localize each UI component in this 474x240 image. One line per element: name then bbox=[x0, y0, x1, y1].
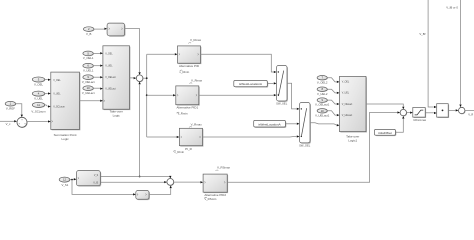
subsystem Take-over Logic1 bbox=[340, 76, 367, 142]
svg-text:initialOffset: initialOffset bbox=[378, 131, 392, 135]
switch SW_OEL bbox=[299, 103, 311, 148]
svg-text:10: 10 bbox=[87, 86, 90, 90]
svg-text:V_c: V_c bbox=[6, 122, 11, 126]
wire V_c input to sum S1 bbox=[0, 120, 17, 126]
wire V_OEL bbox=[45, 79, 51, 81]
wire V_S1 branch to unit delay bbox=[72, 180, 136, 196]
svg-text:V_UEL2: V_UEL2 bbox=[317, 92, 328, 96]
wire V_S1 to measurement block bbox=[70, 178, 77, 180]
inport V_OELact1 (9) bbox=[315, 98, 330, 107]
constant isWestLocationA bbox=[234, 81, 268, 88]
wire V_SCLsum bbox=[45, 105, 51, 108]
annotation V_Rmax (PI_R) bbox=[189, 122, 202, 127]
wire measurement V_IS to sum S5 left bbox=[100, 181, 167, 183]
subsystem Take-over Logic bbox=[103, 46, 131, 118]
svg-text:v_RSmin: v_RSmin bbox=[205, 197, 217, 201]
svg-text:V_UEL: V_UEL bbox=[53, 94, 61, 96]
wire isWestLocationB to SW_OEL port2 bbox=[285, 123, 299, 125]
wire V_IB from top to sum S4 top bbox=[446, 0, 461, 107]
svg-text:V_Rmax: V_Rmax bbox=[190, 38, 202, 42]
wire V_B bbox=[94, 28, 108, 30]
annotation v_Rmin (PID1) bbox=[177, 112, 188, 116]
annotation v_Rmin (PI_R) bbox=[173, 150, 184, 154]
annotation v_RSmin (PID2) bbox=[204, 197, 216, 201]
svg-text:V_OEL: V_OEL bbox=[34, 82, 43, 86]
inport V_OELact (9) bbox=[82, 75, 95, 84]
svg-text:V_SCLsum: V_SCLsum bbox=[31, 109, 46, 113]
svg-text:V_OEL2: V_OEL2 bbox=[317, 80, 328, 84]
wire feedback riser to sum S2 bottom bbox=[138, 82, 140, 178]
svg-text:V_OEL: V_OEL bbox=[53, 80, 61, 82]
inport V_OEL2 (7) bbox=[317, 76, 328, 85]
svg-text:V_S1: V_S1 bbox=[61, 183, 68, 187]
wire V_UEL2 bbox=[327, 89, 339, 94]
svg-text:v_Rmin: v_Rmin bbox=[179, 70, 189, 74]
svg-text:V_OELact: V_OELact bbox=[82, 80, 95, 84]
inport V_S1 (12) bbox=[59, 177, 70, 187]
annotation v_Rmin (PID) bbox=[179, 70, 189, 74]
block Alternative PID2 bbox=[203, 174, 228, 197]
sum S4 bbox=[459, 107, 466, 114]
svg-text:V_UEL1: V_UEL1 bbox=[83, 69, 94, 73]
wire SW_OEL output to Take-over Logic1 bbox=[310, 123, 340, 127]
block V_B filter bbox=[107, 23, 125, 37]
inport V_UELact (10) bbox=[82, 86, 95, 95]
svg-text:V_UELact: V_UELact bbox=[82, 91, 95, 95]
wire measurement V_S to sum S5 top and feedback bbox=[100, 176, 171, 179]
svg-text:isWestLocationA: isWestLocationA bbox=[239, 82, 263, 86]
svg-text:V_UEL: V_UEL bbox=[105, 66, 113, 68]
product block bbox=[437, 104, 449, 118]
svg-text:SW_UEL: SW_UEL bbox=[276, 102, 288, 106]
wire product to sum S4 bbox=[448, 109, 458, 111]
wire Alternative PID2 to sum S3 left bbox=[227, 111, 400, 182]
svg-text:Alternative PID1: Alternative PID1 bbox=[176, 106, 198, 110]
svg-text:V_OEL: V_OEL bbox=[342, 82, 350, 84]
subsystem measurement bbox=[77, 171, 102, 187]
svg-text:V_Rmax: V_Rmax bbox=[191, 122, 203, 126]
svg-text:SW_OEL: SW_OEL bbox=[299, 144, 311, 148]
svg-text:V_Rmax: V_Rmax bbox=[191, 78, 203, 82]
svg-text:URminmax: URminmax bbox=[413, 118, 427, 122]
wire V_UELact bbox=[93, 87, 103, 89]
svg-text:Logic: Logic bbox=[113, 114, 121, 118]
wire V_UEL1 bbox=[93, 64, 103, 66]
wire sum S5 to Alternative PID2 bbox=[174, 181, 203, 183]
subsystem Summation Point Logic bbox=[51, 72, 81, 141]
inport V_OEL1 (5) bbox=[83, 51, 94, 60]
svg-text:v_Rmin: v_Rmin bbox=[174, 150, 184, 154]
wire output V_R bbox=[465, 110, 474, 116]
svg-text:11: 11 bbox=[37, 103, 40, 107]
inport V_UEL (4) bbox=[32, 91, 45, 100]
sum S3 bbox=[400, 109, 407, 116]
wire Alternative PID to SW_UEL port1 bbox=[201, 54, 277, 73]
inport V_UELact1 (10) bbox=[315, 109, 330, 118]
inport V_SCLsum (11) bbox=[31, 102, 46, 113]
svg-text:V_OEL: V_OEL bbox=[105, 53, 113, 55]
wire V_OELact bbox=[93, 76, 103, 78]
block PI_R bbox=[179, 128, 203, 151]
svg-text:Logic: Logic bbox=[62, 137, 70, 141]
wire SW_UEL output to SW_OEL port1 bbox=[287, 83, 300, 110]
saturation URminmax bbox=[413, 108, 427, 123]
wire V_REF to sum S1 bbox=[15, 104, 23, 118]
wire isWestLocationA to SW_UEL port2 bbox=[267, 82, 276, 84]
wire Take-over Logic to sum S2 bbox=[130, 77, 137, 79]
wire Take-over Logic1 to sum S3 top bbox=[366, 104, 404, 109]
wire Summation Point Logic to Take-over Logic bbox=[80, 100, 103, 102]
wire V_UEL bbox=[45, 92, 51, 94]
svg-text:V_Bf: V_Bf bbox=[419, 32, 425, 36]
inport V_UEL1 (6) bbox=[83, 63, 94, 72]
svg-text:V_OEL1: V_OEL1 bbox=[83, 56, 94, 60]
wire URminmax to product bbox=[425, 112, 437, 114]
svg-text:PI_R: PI_R bbox=[185, 147, 193, 151]
wire unit delay to sum S5 bottom bbox=[149, 185, 172, 194]
svg-text:V_R: V_R bbox=[468, 113, 473, 117]
constant initialOffset bbox=[375, 129, 397, 136]
svg-text:V_OELact: V_OELact bbox=[342, 103, 353, 106]
annotation V_Rmax (PID1) bbox=[189, 78, 202, 83]
svg-text:V_IB or 0: V_IB or 0 bbox=[446, 5, 458, 9]
block Alternative PID bbox=[178, 46, 202, 68]
sum S2 bbox=[136, 75, 143, 82]
unit delay bbox=[136, 191, 150, 201]
sum S5 bbox=[167, 179, 174, 186]
inport V_UEL2 (8) bbox=[317, 87, 328, 96]
svg-text:V_RSmax: V_RSmax bbox=[217, 166, 231, 170]
svg-text:V_UELact: V_UELact bbox=[342, 114, 353, 117]
svg-text:V_B: V_B bbox=[86, 32, 91, 36]
svg-text:V_S: V_S bbox=[94, 175, 99, 177]
svg-text:V_OELact: V_OELact bbox=[105, 76, 116, 79]
annotation V_RSmax (PID2) bbox=[216, 166, 231, 171]
svg-text:10: 10 bbox=[321, 109, 324, 113]
wire V_OELact1 bbox=[327, 100, 339, 105]
svg-text:V_REF: V_REF bbox=[6, 106, 15, 110]
inport V_B (2) bbox=[84, 27, 95, 36]
svg-text:V_IS: V_IS bbox=[93, 182, 98, 184]
annotation V_Rmax (PID) bbox=[188, 38, 201, 43]
wire Alternative PID1 to SW_UEL port3 bbox=[199, 94, 277, 96]
svg-text:Alternative PID: Alternative PID bbox=[179, 64, 200, 68]
svg-text:V_UEL: V_UEL bbox=[342, 93, 350, 95]
wire V_UELact1 bbox=[327, 111, 339, 116]
switch SW_UEL bbox=[276, 66, 288, 106]
wire V_Bf from top to product port1 bbox=[419, 0, 436, 108]
inport V_OEL (3) bbox=[32, 77, 45, 86]
svg-text:V_OELact1: V_OELact1 bbox=[315, 103, 330, 107]
svg-text:V_SCLsum: V_SCLsum bbox=[53, 107, 65, 109]
svg-text:V_UELact1: V_UELact1 bbox=[315, 113, 330, 117]
wire PI_R to SW_OEL port3 bbox=[203, 135, 300, 137]
svg-text:Logic1: Logic1 bbox=[348, 139, 357, 143]
svg-text:12: 12 bbox=[63, 178, 66, 182]
constant isWestLocationB bbox=[254, 120, 287, 128]
svg-text:V_UELact: V_UELact bbox=[105, 87, 116, 90]
wire sum S3 to URminmax bbox=[407, 111, 413, 113]
sum S1 bbox=[17, 117, 28, 128]
wire V_B filter to sum S2 top bbox=[125, 29, 141, 75]
wire initialOffset to sum S3 bottom bbox=[395, 116, 404, 132]
svg-text:isWestLocationA: isWestLocationA bbox=[258, 122, 280, 126]
inport V_REF (1) bbox=[5, 101, 16, 110]
wire V_OEL1 bbox=[93, 52, 103, 54]
svg-text:V_UEL: V_UEL bbox=[34, 96, 43, 100]
wire sum S2 output branch to PID blocks bbox=[143, 53, 180, 138]
wire V_OEL2 bbox=[327, 78, 339, 83]
block Alternative PID1 bbox=[176, 86, 200, 110]
svg-text:v_Rmin: v_Rmin bbox=[178, 112, 188, 116]
wire sum S1 to Summation Point Logic bbox=[27, 120, 51, 122]
